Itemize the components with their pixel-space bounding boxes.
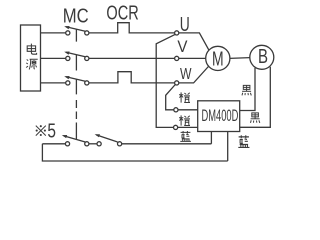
svg-text:DM400D: DM400D — [202, 107, 239, 125]
svg-text:W: W — [180, 66, 192, 83]
svg-text:5: 5 — [47, 120, 56, 142]
svg-text:M: M — [212, 48, 224, 70]
svg-text:OCR: OCR — [106, 2, 138, 24]
svg-text:V: V — [177, 37, 188, 56]
svg-text:U: U — [180, 14, 190, 36]
svg-text:B: B — [258, 46, 268, 68]
svg-text:MC: MC — [63, 6, 89, 28]
